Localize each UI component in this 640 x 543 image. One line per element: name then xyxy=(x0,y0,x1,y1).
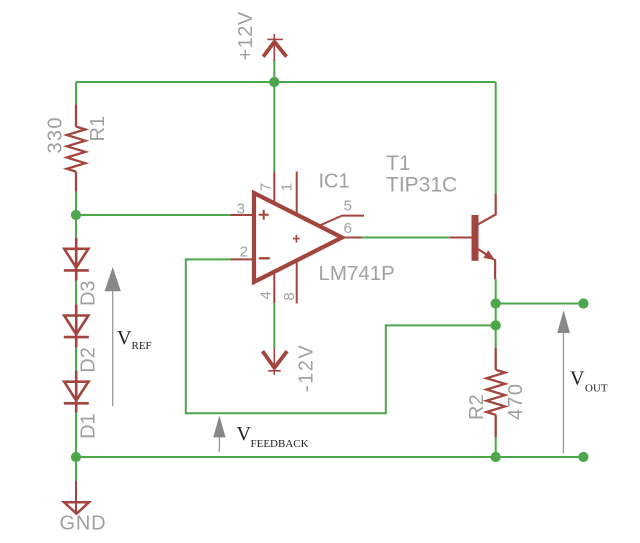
svg-text:470: 470 xyxy=(505,383,527,420)
svg-text:T1: T1 xyxy=(386,152,411,175)
op-amp minus input mark xyxy=(259,257,270,259)
transistor emitter lead xyxy=(478,249,495,279)
wire D1 to bottom node xyxy=(75,413,77,457)
svg-text:7: 7 xyxy=(258,183,275,191)
diode D1 xyxy=(64,371,89,413)
wire V+ to opamp pin7 xyxy=(273,82,275,172)
svg-text:TIP31C: TIP31C xyxy=(386,174,457,197)
wire collector xyxy=(495,82,497,194)
svg-text:4: 4 xyxy=(258,291,275,299)
op-amp pin 2 stub xyxy=(231,258,255,260)
wire output stub xyxy=(496,303,584,305)
svg-text:-12V: -12V xyxy=(296,344,318,392)
transistor Q1 base bar xyxy=(472,215,479,261)
svg-text:REF: REF xyxy=(132,340,152,352)
transistor base lead xyxy=(450,237,472,239)
op-amp center plus mark xyxy=(293,235,300,243)
node VOUT- endpoint xyxy=(578,452,588,462)
op-amp pin 6 output stub xyxy=(342,237,362,239)
svg-text:V: V xyxy=(237,423,252,445)
svg-text:1: 1 xyxy=(279,183,296,191)
wire +12V stub xyxy=(273,59,275,82)
svg-text:V: V xyxy=(117,327,132,349)
ground xyxy=(64,481,89,514)
wire node A to pin3 xyxy=(76,214,231,216)
junction node feedback xyxy=(491,320,501,330)
svg-text:IC1: IC1 xyxy=(319,171,350,193)
junction node bottom left xyxy=(71,452,81,462)
wire R2 bottom xyxy=(495,437,497,457)
op-amp pin 1 stub xyxy=(296,172,298,216)
junction node R2 bottom xyxy=(491,452,501,462)
op-amp pin 7 stub xyxy=(273,172,275,204)
svg-text:OUT: OUT xyxy=(585,383,608,395)
wire R1 top xyxy=(75,82,77,104)
supply -12V symbol xyxy=(263,348,288,375)
svg-text:D1: D1 xyxy=(78,413,100,439)
op-amp pin 4 stub xyxy=(273,272,275,304)
svg-text:+12V: +12V xyxy=(235,11,257,60)
svg-text:330: 330 xyxy=(45,116,67,153)
wire GND stub xyxy=(75,457,77,481)
svg-text:2: 2 xyxy=(240,244,248,261)
diode D3 xyxy=(64,238,89,281)
op-amp plus input mark xyxy=(259,210,269,220)
annotation arrow VREF xyxy=(112,291,114,407)
op-amp pin 3 stub xyxy=(231,214,255,216)
svg-text:R1: R1 xyxy=(87,116,109,142)
supply +12V symbol xyxy=(263,34,286,61)
svg-text:V: V xyxy=(570,368,585,390)
svg-text:FEEDBACK: FEEDBACK xyxy=(251,438,309,450)
wire D3 to D2 xyxy=(75,281,77,305)
svg-text:6: 6 xyxy=(344,220,352,237)
svg-text:8: 8 xyxy=(281,292,298,300)
annotation arrow VFEEDBACK xyxy=(218,437,220,452)
wire opamp output to base xyxy=(362,237,450,239)
wire R1 bottom to node A xyxy=(75,192,77,215)
wire node A to D3 xyxy=(75,215,77,238)
svg-text:R2: R2 xyxy=(466,394,488,420)
wire top rail +12V xyxy=(76,81,496,83)
svg-text:GND: GND xyxy=(60,513,107,535)
svg-text:D2: D2 xyxy=(78,347,100,373)
resistor R2 xyxy=(487,348,506,438)
op-amp pin 5 stub xyxy=(320,216,364,226)
transistor collector lead xyxy=(478,194,496,225)
svg-text:LM741P: LM741P xyxy=(319,262,395,285)
node VOUT+ endpoint xyxy=(578,298,588,308)
wire emitter to R2 xyxy=(495,279,497,348)
junction node emitter out xyxy=(491,298,501,308)
svg-text:5: 5 xyxy=(344,197,352,214)
resistor R1 xyxy=(67,104,86,192)
op-amp pin 8 stub xyxy=(296,260,298,303)
wire D2 to D1 xyxy=(75,348,77,371)
transistor emitter arrow xyxy=(483,250,495,260)
svg-text:D3: D3 xyxy=(78,280,100,306)
wire bottom rail xyxy=(76,456,583,458)
diode D2 xyxy=(64,305,89,348)
junction node +12V rail xyxy=(269,77,279,87)
op-amp U1 triangle xyxy=(254,193,342,282)
wire pin4 to -12V xyxy=(273,303,275,348)
svg-text:3: 3 xyxy=(237,201,245,218)
wire feedback loop pin2 xyxy=(186,259,496,413)
annotation arrow VOUT xyxy=(562,333,564,454)
junction node A (R1/D3/pin3) xyxy=(71,210,81,220)
